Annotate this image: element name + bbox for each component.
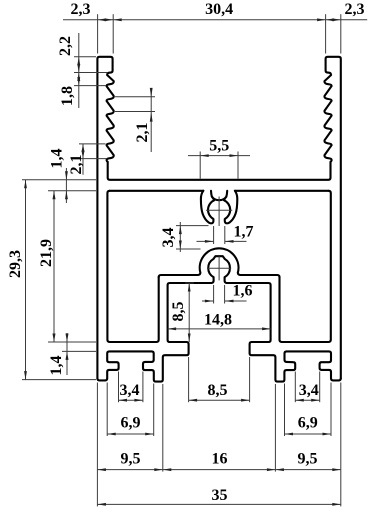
screw boss U1 left arm: [201, 191, 214, 224]
svg-text:5,5: 5,5: [209, 137, 229, 154]
svg-text:9,5: 9,5: [298, 451, 318, 468]
dimension 29,3 overall height: [25, 180, 27, 380]
svg-text:9,5: 9,5: [121, 451, 141, 468]
dimension 8,5 box inner height: [188, 283, 190, 342]
svg-text:8,5: 8,5: [170, 302, 187, 322]
dimension 6,9 right foot cavity: [284, 384, 286, 437]
dimension 1,4 bottom wall thickness: [66, 333, 68, 375]
svg-text:29,3: 29,3: [7, 250, 24, 278]
dimension 3,4 boss gap: [179, 222, 181, 252]
svg-text:6,9: 6,9: [121, 415, 141, 432]
svg-text:1,8: 1,8: [59, 86, 76, 106]
dimension 2,2 / 1,8 left of cap: [78, 33, 80, 108]
dimension 1,6 dome slot: [202, 300, 213, 302]
svg-text:2,2: 2,2: [57, 36, 74, 56]
wire: top wall inner surface from right wall to boss U1: [235, 190, 329, 192]
dimension 9,5 / 16 / 9,5 row: [96, 383, 98, 507]
svg-text:2,1: 2,1: [68, 155, 85, 175]
dimension 1,4 top wall thickness: [65, 168, 67, 203]
svg-text:21,9: 21,9: [38, 239, 55, 267]
profile outline: serrated side walls and top wall outer surface: [97, 57, 340, 379]
wire: top wall inner surface toward boss U1: [110, 190, 204, 192]
dimension 5,5 boss width: [188, 155, 250, 157]
dimension 3,4 left foot slot: [118, 372, 120, 403]
dimension 35 overall width: [97, 503, 340, 505]
dimension 2,1 lower left: [82, 144, 84, 175]
boss U1 crosshair horizontal: [206, 209, 232, 211]
svg-text:16: 16: [212, 451, 228, 468]
svg-text:1,4: 1,4: [49, 149, 66, 169]
top wall inner surface left, left side wall inner face, bottom wall top, box outer wall left: [107, 191, 158, 342]
svg-text:3,4: 3,4: [160, 228, 177, 248]
svg-text:30,4: 30,4: [205, 1, 233, 18]
top wall inner surface right, right side wall inner face, bottom wall top, box outer wall right: [280, 191, 331, 342]
svg-text:1,6: 1,6: [233, 283, 253, 300]
boss U2 crosshair horizontal: [207, 267, 231, 269]
dimension 3,4 right foot slot: [294, 372, 296, 403]
dimension 2,1 serration pitch: [150, 90, 152, 152]
svg-text:8,5: 8,5: [208, 382, 228, 399]
box inner walls, floor, central slot, T-slot feet and bottom contour: [97, 256, 340, 381]
boss U2 crosshair vertical: [218, 256, 220, 280]
dimension 21,9 inner height: [53, 191, 55, 342]
svg-text:2,1: 2,1: [134, 123, 151, 143]
svg-text:1,4: 1,4: [48, 356, 65, 376]
dimension 2,3 / 30,4 / 2,3 top line: [63, 19, 367, 21]
box top outer surface and screw boss U2 dome: [159, 248, 280, 277]
dimension 1,7 boss slot: [197, 240, 214, 242]
dimension 14,8 box inner width: [168, 328, 271, 330]
screw boss U1 right arm: [224, 191, 237, 224]
svg-text:1,7: 1,7: [234, 224, 254, 241]
svg-text:3,4: 3,4: [299, 382, 319, 399]
svg-text:35: 35: [212, 487, 228, 504]
dimension 6,9 left foot cavity: [106, 383, 108, 437]
svg-text:14,8: 14,8: [204, 311, 232, 328]
boss U1 crosshair vertical: [218, 197, 220, 227]
screw boss U1 tongue dome: [212, 197, 226, 201]
svg-text:2,3: 2,3: [71, 1, 91, 18]
svg-text:2,3: 2,3: [345, 1, 365, 18]
svg-text:3,4: 3,4: [120, 382, 140, 399]
svg-text:6,9: 6,9: [298, 415, 318, 432]
dimension 8,5 centre slot: [188, 357, 190, 402]
